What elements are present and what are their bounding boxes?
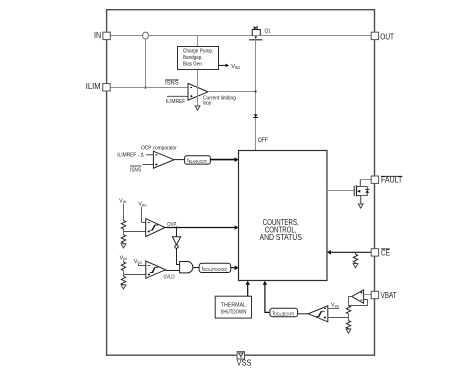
svg-text:VSS: VSS	[237, 358, 252, 367]
op-amp OCP comparator	[153, 151, 174, 168]
wire control box to FAULT transistor gate	[327, 190, 354, 192]
AND gate	[180, 262, 193, 273]
svg-text:VBG: VBG	[331, 303, 339, 309]
buffer VBAT follower	[352, 290, 364, 304]
resistor OVP divider bottom	[121, 235, 125, 243]
svg-text:VBG: VBG	[231, 64, 240, 70]
pin OUT	[371, 32, 394, 41]
svg-text:OCP comparator: OCP comparator	[141, 146, 177, 152]
svg-text:Bias Gen: Bias Gen	[183, 62, 202, 68]
resistor OVP divider top	[121, 221, 125, 229]
svg-text:VBG: VBG	[134, 259, 142, 265]
svg-text:CE: CE	[381, 249, 390, 258]
svg-text:IN: IN	[94, 31, 101, 40]
wire charge pump to current-limit amp supply	[197, 70, 199, 84]
wire VIN to UVLO divider	[123, 260, 125, 262]
wire OVP divider middle and tap	[124, 229, 146, 235]
wire IN to OUT power path	[110, 35, 371, 37]
wire ILIM rail to current limit amp	[110, 87, 188, 89]
wire OCP output to blank timer	[174, 159, 185, 161]
wire Q1 gate OFF line down to control box	[255, 40, 257, 151]
svg-text:VIN: VIN	[119, 198, 126, 204]
pin CE active low	[371, 249, 390, 258]
wire OVP output to control box with arrow	[165, 225, 239, 230]
svg-text:tDGL(BOVP): tDGL(BOVP)	[273, 311, 295, 317]
label OCP comparator	[141, 146, 177, 152]
svg-text:Q1: Q1	[265, 28, 271, 34]
svg-text:loop: loop	[203, 100, 211, 106]
op-amp UVLO comparator	[146, 261, 166, 278]
current sense bubble on IN rail	[143, 32, 149, 39]
svg-text:VBG: VBG	[138, 202, 146, 208]
wire buffer output to divider	[349, 297, 352, 306]
wire VBG to OVP comparator	[142, 207, 146, 223]
node OVP to inverter junction	[175, 226, 177, 228]
wire sense drop to ILIM rail	[145, 39, 147, 87]
label ISNS with input stub	[130, 165, 154, 174]
wire AND output to PGOOD timer	[193, 267, 199, 269]
label UVLO	[164, 275, 175, 281]
pin VSS with ground mark	[237, 352, 252, 368]
wire PGOOD timer to control box with arrow	[231, 265, 239, 270]
svg-text:OUT: OUT	[380, 32, 394, 41]
wire inverter to AND gate	[177, 248, 180, 264]
block thermal shutdown	[215, 296, 251, 318]
svg-text:Bandgap,: Bandgap,	[183, 55, 203, 61]
inverter	[172, 228, 180, 249]
svg-text:SHUTDOWN: SHUTDOWN	[220, 310, 246, 316]
label VIN for OVP divider	[119, 198, 126, 204]
resistor CE pulldown	[353, 252, 357, 262]
wire BOVP timer to control box with arrow	[263, 281, 270, 313]
op-amp BOVP comparator	[308, 306, 328, 322]
ground below current limit amp	[195, 106, 200, 110]
timer tDGL(PGOOD)	[199, 263, 231, 272]
svg-text:ISNS: ISNS	[130, 167, 141, 173]
label VBG for OVP	[138, 202, 146, 208]
wire blank timer to control box with arrow	[210, 157, 238, 162]
wire BOVP divider tap	[328, 317, 349, 319]
wire buffer feedback loop	[349, 300, 368, 306]
pin VBAT	[371, 291, 397, 300]
timer tDGL(BOVP)	[270, 308, 298, 317]
charge pump bandgap bias gen block	[178, 47, 219, 70]
resistor VBAT divider top	[346, 306, 350, 314]
wire VBG to UVLO comparator	[139, 264, 146, 266]
op-amp OVP comparator	[146, 219, 165, 237]
ground below VBAT divider	[346, 329, 351, 334]
label VBG for UVLO	[134, 259, 142, 265]
svg-text:tBLANK(OCP): tBLANK(OCP)	[187, 158, 208, 164]
wire IN drop to charge pump	[197, 36, 199, 47]
node sense-ILIM junction	[144, 86, 146, 88]
wire thermal shutdown to control box with arrow	[245, 281, 250, 296]
wire FAULT drain to pin	[360, 179, 371, 181]
node gate line junction	[254, 90, 256, 92]
label OFF	[258, 137, 268, 144]
label VBG for BOVP	[328, 303, 339, 309]
svg-text:ISNS: ISNS	[165, 80, 179, 86]
label ISNS	[165, 80, 179, 87]
label VIN for UVLO divider	[120, 255, 127, 261]
svg-text:UVLO: UVLO	[164, 275, 175, 281]
wire current limit amp output to Q1 gate line	[208, 91, 256, 93]
wire VIN to divider	[123, 204, 125, 221]
wire UVLO output to AND gate	[166, 270, 180, 272]
ground below FAULT transistor	[358, 204, 363, 208]
resistor UVLO divider bottom	[121, 276, 125, 284]
ground below UVLO divider	[121, 285, 126, 289]
VBG output arrow	[219, 64, 241, 70]
wire UVLO divider middle and tap	[124, 271, 146, 277]
svg-text:THERMAL: THERMAL	[221, 302, 246, 308]
resistor UVLO divider top	[121, 262, 125, 270]
wire VBAT divider middle	[348, 314, 350, 321]
op-amp current limiting amplifier	[188, 83, 208, 100]
block counters control and status	[239, 151, 328, 281]
svg-text:Charge Pump,: Charge Pump,	[183, 49, 213, 55]
wire ILIMREF stub	[166, 96, 188, 105]
svg-text:ILIMREF - Δ: ILIMREF - Δ	[117, 153, 144, 159]
svg-text:ILIMREF: ILIMREF	[166, 99, 185, 105]
svg-text:VBAT: VBAT	[381, 291, 397, 300]
wire CE pin to control box with arrow	[327, 250, 371, 255]
transistor Q1	[249, 26, 270, 40]
wire through amp from supply to ground pin	[197, 84, 199, 106]
ground below OVP divider	[121, 243, 126, 248]
svg-text:FAULT: FAULT	[381, 176, 403, 185]
wire VBAT pin to buffer	[364, 294, 372, 296]
resistor VBAT divider bottom	[346, 321, 350, 329]
label ILIMREF - delta with input stub	[117, 153, 153, 159]
svg-text:OFF: OFF	[258, 137, 268, 144]
transistor FAULT open-drain	[354, 180, 369, 204]
timer tBLANK(OCP)	[185, 156, 211, 164]
label current limiting loop	[203, 96, 236, 107]
wire BOVP comparator output to timer	[298, 313, 309, 315]
diode on OFF line	[253, 114, 258, 117]
svg-text:tDGL(PGOOD): tDGL(PGOOD)	[202, 266, 228, 272]
pin FAULT active low	[371, 176, 402, 185]
pin ILIM	[86, 82, 110, 91]
ground below CE resistor	[353, 263, 358, 268]
IC boundary box	[107, 10, 375, 356]
svg-text:ILIM: ILIM	[86, 82, 101, 91]
pin IN	[94, 31, 110, 40]
label OVP	[167, 222, 177, 228]
svg-text:AND STATUS: AND STATUS	[260, 233, 302, 242]
